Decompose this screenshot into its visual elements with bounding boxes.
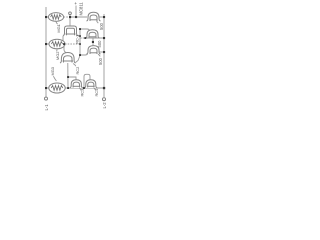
wire row1 stub bus to generator G1 <box>46 16 49 18</box>
node row1 T1 <box>69 16 71 18</box>
svg-text:RC-1: RC-1 <box>75 35 80 44</box>
node row1 plus lead <box>75 16 77 18</box>
node riser y55 <box>79 54 81 56</box>
svg-text:RC3: RC3 <box>80 89 85 97</box>
wire row2 stub bus to generator G2 <box>46 43 49 45</box>
wire riser to ringer B2 top <box>80 29 90 31</box>
terminal bus bottom open circle <box>45 97 48 100</box>
label leader RC2 <box>73 64 76 67</box>
node B2 left foot <box>84 37 86 39</box>
receiver RC2 (bell dome, middle) <box>60 53 76 64</box>
wire drop node to receiver RC1 <box>69 17 71 26</box>
node bus row1 <box>45 16 47 18</box>
wire dashed row2 G2 to riser <box>65 43 80 45</box>
svg-text:500: 500 <box>97 40 102 48</box>
svg-text:MC811: MC811 <box>78 2 83 16</box>
wire RC2 right foot to riser <box>76 56 81 63</box>
wire RC1 left leg down to row2 <box>62 36 65 44</box>
label leader RC4 <box>94 88 96 90</box>
wire loop to receiver RC4 top <box>84 74 90 88</box>
wire RC2 bottom stub down <box>67 63 69 88</box>
node rail row y38 <box>103 37 105 39</box>
wire drop row2 node into receiver RC2 top <box>64 44 66 53</box>
node RC4 loop row3 <box>83 87 85 89</box>
svg-text:MG2: MG2 <box>55 52 60 60</box>
ringer B1 (series dome on row1) <box>87 12 101 21</box>
receiver RC4 (bell dome, bottom right) <box>84 80 97 88</box>
svg-text:MG1: MG1 <box>56 24 61 32</box>
receiver RC3 (bell dome, bottom left) <box>70 80 83 88</box>
label leader B1 <box>97 21 99 23</box>
terminal T1 open circle above node <box>69 12 72 17</box>
wire row y52 ringer B3 to rail <box>99 51 104 53</box>
svg-text:L-2: L-2 <box>102 102 107 109</box>
wire dashed row3 G3 to node <box>65 87 68 89</box>
node x68 row3 <box>67 87 69 89</box>
wire row1 ringer to rail <box>99 16 104 18</box>
node x68 y77 <box>67 76 69 78</box>
node rail row1 <box>103 16 105 18</box>
svg-text:RC4: RC4 <box>94 88 99 97</box>
node bus row3 <box>45 87 47 89</box>
generator G3 (ellipse with winding zigzag) <box>49 83 65 93</box>
wire row y55 riser to ringer B3 <box>80 53 88 55</box>
node rail row3 <box>103 87 105 89</box>
receiver RC1 (bell dome, middle top) <box>63 26 78 36</box>
wire stub B2 bottom to B3 top <box>92 39 94 46</box>
junction dots <box>45 16 105 89</box>
wire center riser x80 <box>79 29 81 55</box>
generator G1 (ellipse with winding zigzag) <box>48 13 63 22</box>
svg-text:+: + <box>74 2 77 7</box>
wire row1 node to ringer B1 <box>70 16 87 18</box>
wire dashed row1 G1 to node <box>64 16 70 18</box>
wire right rail vertical <box>103 14 105 97</box>
wire row3 stub bus to generator G3 <box>46 87 49 89</box>
wire row3 node to rail <box>68 87 104 89</box>
label leader G1 <box>56 22 58 25</box>
svg-text:RC2: RC2 <box>75 67 80 75</box>
node clapper B2-B3 <box>92 41 94 43</box>
label leader B3 <box>98 54 100 56</box>
wire row y38 ringer B2 feet to rail <box>85 37 104 39</box>
terminal rail bottom open circle <box>103 98 106 101</box>
tiny rotated labels <box>44 2 107 111</box>
node riser y44 <box>79 43 81 45</box>
wire row y77 to receiver droppers <box>68 77 76 80</box>
ringer B3 (right column, third) <box>87 46 101 54</box>
svg-text:500: 500 <box>99 22 104 30</box>
battery plus terminal lead <box>75 6 77 18</box>
ringer B2 (right column, second) <box>86 30 100 38</box>
node bus row2 <box>45 43 47 45</box>
svg-text:L-1: L-1 <box>44 104 49 111</box>
svg-text:500: 500 <box>98 57 103 65</box>
generator G2 (ellipse with winding zigzag) <box>49 39 65 49</box>
label leader G2 <box>56 49 58 51</box>
svg-text:MG3: MG3 <box>50 67 55 75</box>
node rail row y52 <box>103 51 105 53</box>
label leader RC3 <box>80 88 82 90</box>
label leader G3 <box>53 76 56 81</box>
wire row y38 spur dashed <box>81 37 86 39</box>
wire RC1 right leg to center riser <box>78 35 81 37</box>
node RC1 right leg <box>79 35 81 37</box>
node riser top <box>79 28 81 30</box>
wire left bus vertical <box>45 7 47 97</box>
node row2 drop <box>63 43 65 45</box>
